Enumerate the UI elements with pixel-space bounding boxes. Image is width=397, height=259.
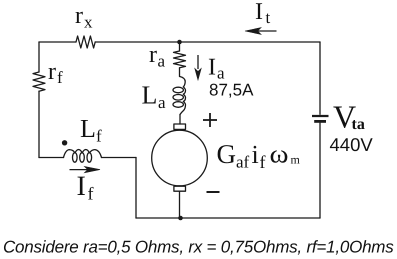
svg-text:f: f	[96, 127, 102, 146]
svg-text:440V: 440V	[330, 134, 374, 155]
brush top	[174, 124, 186, 129]
wire top left	[39, 41, 76, 43]
wire top right	[95, 41, 320, 43]
svg-text:L: L	[80, 114, 96, 143]
svg-text:a: a	[158, 93, 166, 112]
arrow It	[245, 28, 277, 35]
machine circle U1	[152, 130, 208, 186]
arrow If	[70, 167, 101, 173]
battery Vta	[312, 115, 329, 117]
resistor rf	[33, 72, 45, 91]
wire Lf to corner	[102, 157, 137, 159]
svg-text:r: r	[48, 59, 56, 85]
brush bottom	[174, 186, 186, 191]
svg-text:a: a	[158, 52, 166, 71]
svg-text:87,5A: 87,5A	[209, 81, 254, 100]
svg-text:af: af	[236, 153, 250, 172]
wire right top	[319, 42, 321, 114]
inductor Lf	[64, 150, 102, 158]
svg-text:I: I	[77, 171, 86, 202]
svg-text:I: I	[208, 55, 216, 81]
svg-text:L: L	[142, 81, 158, 110]
svg-text:f: f	[88, 184, 94, 204]
node junction top	[177, 40, 182, 45]
polarity dot Lf	[62, 140, 67, 145]
svg-text:G: G	[217, 139, 237, 169]
svg-text:ω: ω	[270, 140, 289, 169]
svg-text:I: I	[255, 0, 263, 25]
arrow Ia	[195, 55, 201, 80]
svg-text:t: t	[266, 8, 271, 27]
svg-text:ta: ta	[352, 116, 365, 133]
svg-text:r: r	[149, 42, 157, 68]
svg-text:Considere ra=0,5 Ohms, rx = 0,: Considere ra=0,5 Ohms, rx = 0,75Ohms, rf…	[3, 238, 394, 257]
wire left upper	[38, 42, 40, 72]
wire left lower	[38, 91, 40, 157]
svg-text:m: m	[291, 153, 301, 167]
wire bottom	[136, 217, 320, 219]
svg-text:r: r	[75, 3, 83, 29]
svg-text:f: f	[57, 68, 63, 87]
wire ra to La	[179, 68, 181, 77]
svg-text:f: f	[260, 152, 266, 172]
wire brush to bottom	[179, 191, 181, 218]
inductor La	[180, 77, 186, 115]
wire to Lf	[39, 157, 64, 159]
resistor ra	[174, 51, 186, 68]
wire La to brush	[179, 115, 181, 125]
wire down from Lf	[135, 158, 137, 219]
wire armature top	[179, 42, 181, 51]
minus sign	[207, 191, 220, 193]
svg-text:x: x	[84, 13, 93, 32]
resistor rx	[76, 36, 95, 48]
wire right bottom	[319, 123, 321, 218]
node junction bottom	[178, 216, 183, 221]
plus sign	[203, 113, 217, 127]
svg-text:i: i	[252, 140, 259, 169]
